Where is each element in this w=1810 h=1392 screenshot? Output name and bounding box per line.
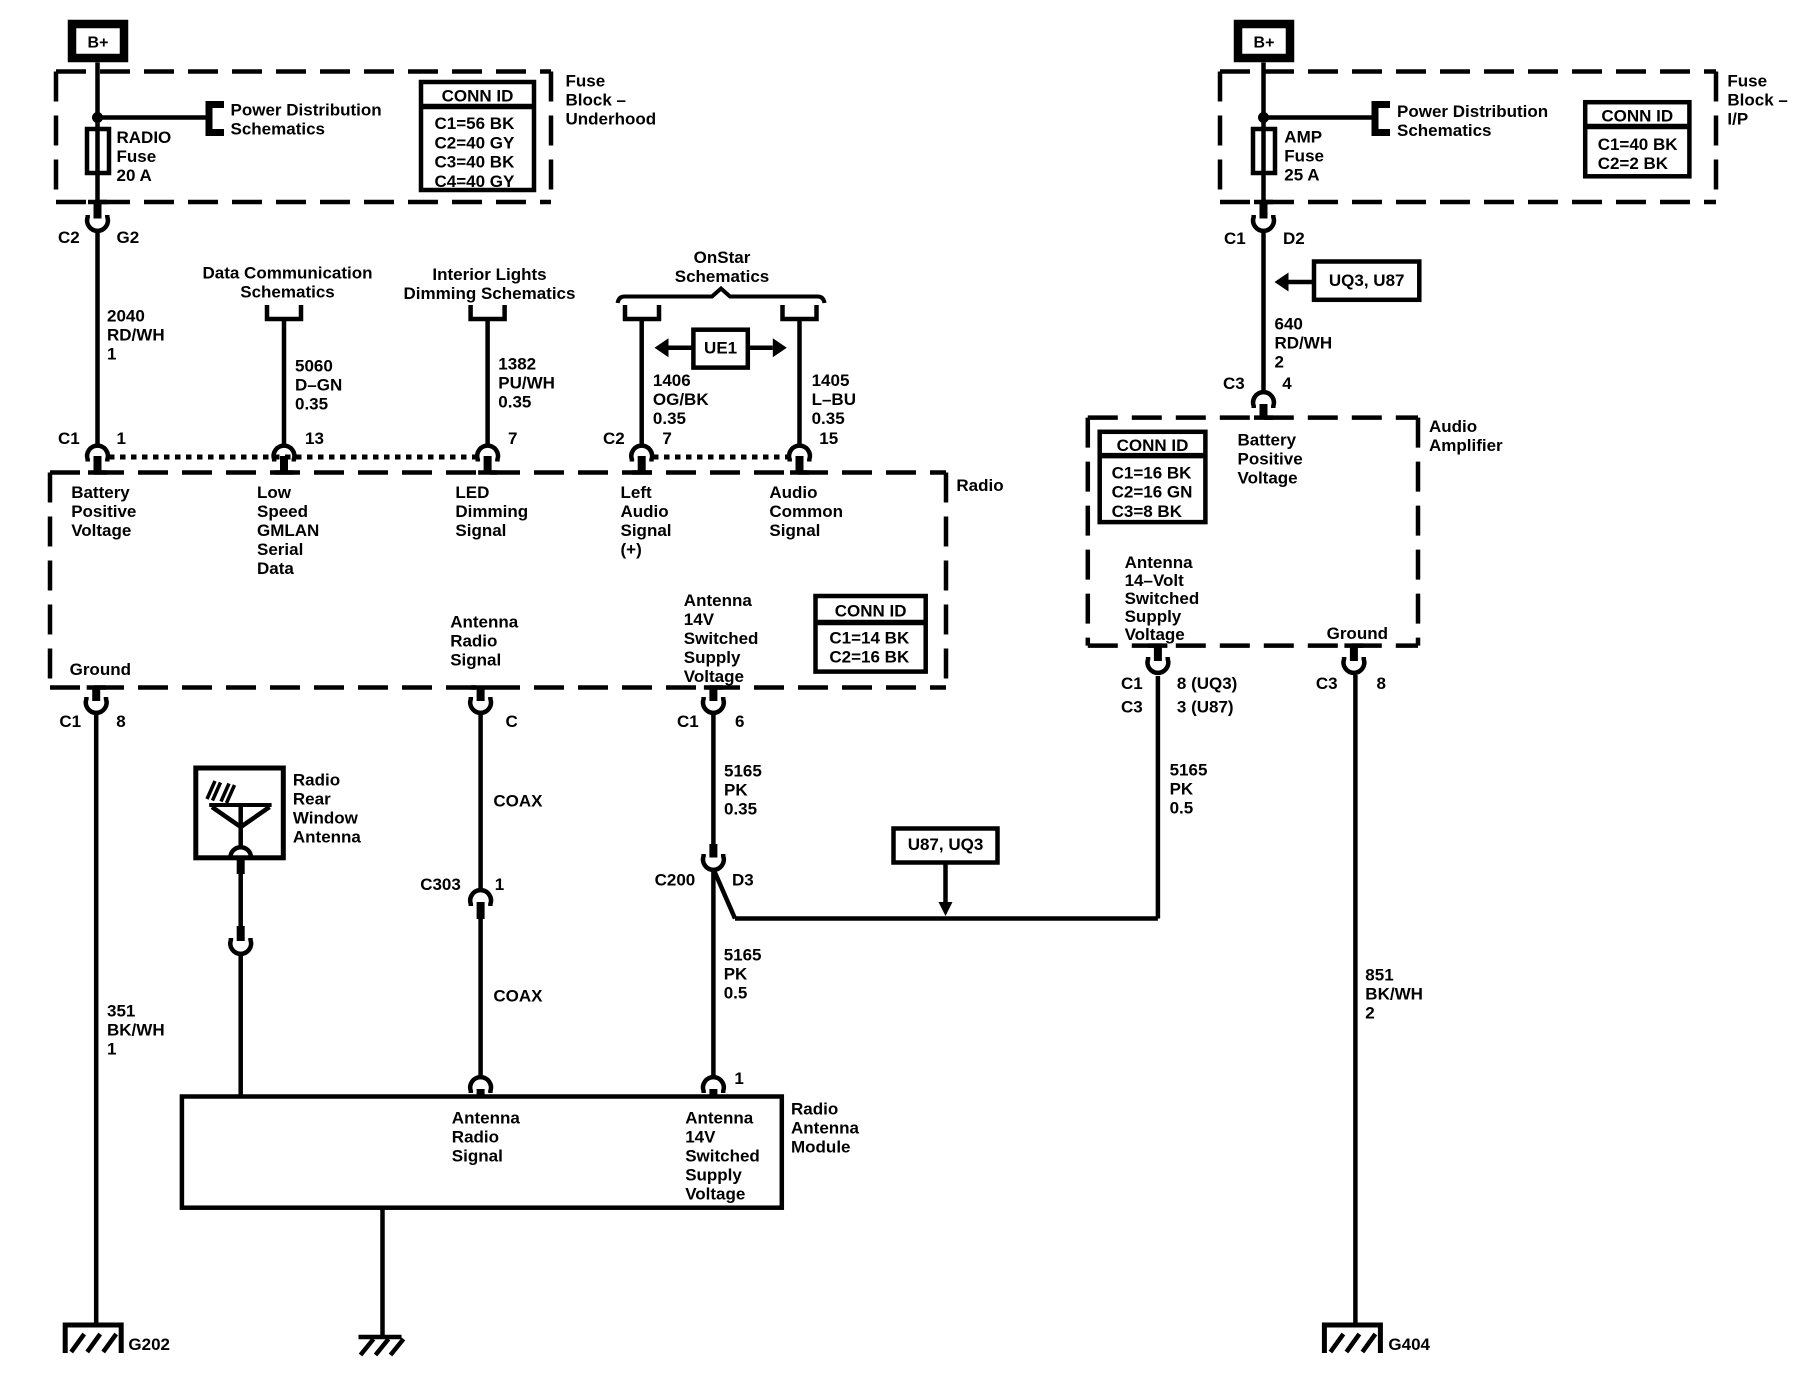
svg-text:5165: 5165	[724, 761, 762, 780]
label Antenna Radio Signal (radio)	[450, 612, 519, 669]
option box U87 UQ3	[894, 829, 998, 863]
wire B+ feed inside fuse block IP	[1261, 74, 1266, 131]
svg-text:Dimming: Dimming	[455, 502, 528, 521]
option box UE1	[693, 330, 747, 368]
svg-text:Voltage: Voltage	[685, 1184, 745, 1203]
svg-text:Amplifier: Amplifier	[1429, 436, 1503, 455]
svg-text:Signal: Signal	[455, 521, 506, 540]
svg-text:C3=8 BK: C3=8 BK	[1112, 502, 1183, 521]
wire antenna to module	[238, 954, 243, 1097]
label Low Speed GMLAN Serial Data	[257, 483, 319, 578]
svg-text:851: 851	[1365, 965, 1393, 984]
label 5060 D-GN 0.35	[295, 356, 342, 413]
svg-text:BK/WH: BK/WH	[1365, 984, 1423, 1003]
svg-text:Antenna: Antenna	[791, 1118, 860, 1137]
radio ground pin cup	[86, 697, 107, 713]
svg-text:C2: C2	[58, 228, 80, 247]
border dash segments at pin crossings	[87, 202, 1364, 688]
svg-text:Interior Lights: Interior Lights	[432, 265, 546, 284]
svg-text:14V: 14V	[685, 1127, 716, 1146]
svg-text:6: 6	[735, 712, 744, 731]
svg-text:I/P: I/P	[1727, 109, 1748, 128]
wire COAX lower	[478, 919, 483, 1076]
svg-text:0.35: 0.35	[724, 799, 757, 818]
label 5165 PK 0.35	[724, 761, 762, 818]
wire branch diagonal to amplifier	[715, 872, 736, 919]
svg-text:C1=40 BK: C1=40 BK	[1598, 135, 1679, 154]
wire COAX upper	[478, 714, 483, 889]
svg-text:5060: 5060	[295, 356, 333, 375]
svg-text:C200: C200	[655, 871, 696, 890]
svg-text:2: 2	[1275, 352, 1284, 371]
svg-text:C303: C303	[420, 875, 461, 894]
wire module ground	[380, 1208, 385, 1339]
UQ3 U87 arrow left	[1275, 273, 1315, 292]
amp ground pin stub	[1350, 646, 1358, 661]
svg-text:Fuse: Fuse	[566, 71, 606, 90]
svg-text:Rear: Rear	[293, 789, 331, 808]
module antenna signal pin dome	[470, 1077, 491, 1093]
label Left Audio Signal (+)	[621, 483, 672, 559]
svg-text:Supply: Supply	[684, 648, 741, 667]
label 640 RD/WH 2	[1275, 314, 1333, 371]
svg-text:Ground: Ground	[1327, 624, 1388, 643]
svg-text:C3: C3	[1223, 374, 1245, 393]
label Antenna 14-Volt Switched Supply Voltage (amp)	[1125, 553, 1200, 644]
svg-text:Fuse: Fuse	[1727, 71, 1767, 90]
label Power Distribution Schematics (left)	[231, 100, 382, 138]
antenna inline connector stub	[237, 926, 245, 941]
label Battery Positive Voltage (amp)	[1238, 430, 1303, 487]
wire to power distribution pointer (right)	[1264, 115, 1373, 120]
radio pin 15 dome	[789, 446, 810, 462]
svg-text:Ground: Ground	[70, 660, 131, 679]
svg-text:Audio: Audio	[1429, 417, 1477, 436]
svg-text:Voltage: Voltage	[71, 521, 131, 540]
svg-text:0.35: 0.35	[295, 394, 328, 413]
svg-text:C2: C2	[603, 429, 625, 448]
svg-text:D–GN: D–GN	[295, 375, 342, 394]
svg-text:20 A: 20 A	[117, 166, 152, 185]
connector C303 dome	[470, 890, 491, 906]
svg-text:C1: C1	[58, 429, 80, 448]
wire B+ feed inside fuse block	[95, 74, 100, 131]
svg-text:0.5: 0.5	[724, 983, 748, 1002]
radio pin 7 dome	[477, 446, 498, 462]
ground G404 symbol	[1324, 1325, 1380, 1353]
interior lights bracket	[471, 305, 505, 319]
label Data Communication Schematics	[202, 263, 372, 301]
svg-text:0.35: 0.35	[812, 409, 845, 428]
svg-text:PK: PK	[724, 780, 748, 799]
junction node (right)	[1258, 112, 1269, 123]
svg-text:Signal: Signal	[769, 521, 820, 540]
wire 2040 RD/WH	[95, 231, 100, 445]
wire through AMP fuse	[1261, 131, 1266, 202]
svg-text:COAX: COAX	[493, 791, 543, 810]
antenna inline connector cup	[230, 938, 251, 954]
CONN ID table radio	[816, 596, 926, 672]
label Audio Common Signal	[769, 483, 843, 540]
wire vertical up to amplifier pin	[1156, 676, 1161, 919]
svg-text:Low: Low	[257, 483, 292, 502]
svg-text:Positive: Positive	[71, 502, 136, 521]
svg-text:2: 2	[1365, 1003, 1374, 1022]
svg-text:0.5: 0.5	[1170, 798, 1194, 817]
svg-text:14V: 14V	[684, 610, 715, 629]
connector C1 D2 stub	[1260, 202, 1268, 219]
svg-text:(+): (+)	[621, 540, 642, 559]
svg-text:Serial: Serial	[257, 540, 303, 559]
svg-text:Radio: Radio	[450, 631, 497, 650]
amp ground pin cup	[1344, 657, 1365, 673]
svg-text:1: 1	[117, 429, 126, 448]
svg-text:8: 8	[1377, 674, 1386, 693]
svg-text:1382: 1382	[498, 354, 536, 373]
wire 640 RD/WH	[1261, 231, 1266, 391]
svg-text:CONN ID: CONN ID	[835, 602, 907, 621]
svg-text:B+: B+	[88, 35, 109, 52]
label OnStar Schematics	[675, 248, 770, 286]
wire B+ to fuse block IP	[1261, 63, 1266, 75]
svg-text:Supply: Supply	[1125, 607, 1182, 626]
radio antenna signal pin cup	[470, 697, 491, 713]
svg-text:640: 640	[1275, 314, 1303, 333]
svg-text:C1=56 BK: C1=56 BK	[435, 114, 516, 133]
connector C2 dotted row	[653, 455, 788, 460]
svg-text:C1: C1	[677, 712, 699, 731]
svg-text:C3=40 BK: C3=40 BK	[435, 153, 516, 172]
radio pin 1 stub	[94, 456, 102, 472]
CONN ID table fuse block underhood	[421, 82, 534, 191]
radio antenna 14V pin stub	[709, 688, 717, 702]
U87 UQ3 arrow down	[939, 863, 953, 917]
connector C2 G2 stub	[94, 202, 102, 219]
radio pin 7 stub	[484, 456, 492, 472]
antenna symbol	[209, 805, 271, 858]
label Radio Rear Window Antenna	[293, 770, 362, 846]
svg-text:Voltage: Voltage	[1238, 468, 1298, 487]
svg-text:G404: G404	[1388, 1335, 1430, 1354]
svg-text:LED: LED	[455, 483, 489, 502]
label 1406 OG/BK 0.35	[653, 371, 709, 428]
ground symbol (module)	[359, 1337, 404, 1355]
radio pin 1 dome	[87, 446, 108, 462]
label 1382 PU/WH 0.35	[498, 354, 555, 411]
svg-text:Fuse: Fuse	[117, 147, 157, 166]
svg-text:CONN ID: CONN ID	[1117, 436, 1189, 455]
svg-text:PK: PK	[724, 964, 748, 983]
svg-text:Schematics: Schematics	[1397, 121, 1492, 140]
svg-text:Speed: Speed	[257, 502, 308, 521]
radio antenna module box	[182, 1097, 782, 1208]
junction node	[92, 112, 103, 123]
svg-text:Antenna: Antenna	[450, 612, 519, 631]
svg-text:25 A: 25 A	[1284, 165, 1319, 184]
svg-text:5165: 5165	[1170, 760, 1208, 779]
svg-text:Positive: Positive	[1238, 449, 1303, 468]
svg-text:C2=16 BK: C2=16 BK	[829, 648, 910, 667]
radio pin 13 dome	[274, 446, 295, 462]
radio antenna signal pin stub	[477, 688, 485, 702]
svg-text:4: 4	[1282, 374, 1292, 393]
svg-text:Radio: Radio	[452, 1127, 499, 1146]
svg-text:Signal: Signal	[450, 650, 501, 669]
svg-text:Radio: Radio	[293, 770, 340, 789]
module antenna 14V pin dome	[703, 1077, 724, 1093]
radio dashed box	[50, 473, 946, 688]
svg-text:CONN ID: CONN ID	[442, 87, 514, 106]
svg-text:Audio: Audio	[621, 502, 669, 521]
svg-text:Antenna: Antenna	[685, 1108, 754, 1127]
svg-text:COAX: COAX	[493, 986, 543, 1005]
fuse RADIO 20A symbol	[87, 129, 109, 173]
connector C1 dotted row	[109, 455, 476, 460]
svg-text:AMP: AMP	[1284, 127, 1322, 146]
svg-text:Data: Data	[257, 559, 294, 578]
svg-text:RADIO: RADIO	[117, 128, 172, 147]
CONN ID table fuse block IP	[1585, 102, 1689, 176]
data communication bracket	[267, 305, 301, 319]
svg-text:C1=14 BK: C1=14 BK	[829, 628, 910, 647]
label Power Distribution Schematics (right)	[1397, 102, 1548, 140]
svg-text:RD/WH: RD/WH	[107, 325, 165, 344]
onstar right bracket	[783, 305, 817, 319]
svg-text:Underhood: Underhood	[566, 109, 657, 128]
svg-text:7: 7	[508, 429, 517, 448]
svg-text:0.35: 0.35	[653, 409, 686, 428]
svg-text:Antenna: Antenna	[293, 827, 362, 846]
wire B+ to fuse block underhood	[95, 63, 100, 75]
svg-text:Battery: Battery	[1238, 430, 1297, 449]
svg-text:D2: D2	[1283, 229, 1305, 248]
wire 1382 PU/WH	[485, 319, 490, 445]
svg-text:15: 15	[819, 429, 838, 448]
svg-text:1: 1	[107, 1039, 116, 1058]
label 5165 PK 0.5 (left)	[724, 945, 762, 1002]
antenna output stub	[237, 858, 245, 874]
connector C303 stub	[477, 902, 485, 919]
wire to power distribution pointer	[98, 115, 207, 120]
fuse block IP dashed box	[1220, 72, 1716, 203]
svg-text:1: 1	[495, 875, 504, 894]
svg-text:C3: C3	[1121, 698, 1143, 717]
svg-text:C4=40 GY: C4=40 GY	[435, 172, 516, 191]
radio antenna 14V pin cup	[703, 697, 724, 713]
label Battery Positive Voltage (radio)	[71, 483, 136, 540]
label AMP Fuse 25 A	[1284, 127, 1324, 184]
svg-text:C1: C1	[59, 712, 81, 731]
svg-text:C2=40 GY: C2=40 GY	[435, 133, 516, 152]
svg-text:C: C	[506, 712, 518, 731]
svg-text:Window: Window	[293, 808, 359, 827]
svg-text:OG/BK: OG/BK	[653, 390, 709, 409]
wire 5165 PK 0.35	[711, 714, 716, 844]
UE1 left arrow	[655, 338, 694, 357]
svg-text:Block –: Block –	[1727, 90, 1787, 109]
amp antenna supply pin cup	[1148, 657, 1169, 673]
B+ power symbol (right)	[1238, 24, 1290, 58]
label RADIO Fuse 20 A	[117, 128, 172, 185]
svg-text:C2=16 GN: C2=16 GN	[1112, 483, 1193, 502]
label 2040 RD/WH 1	[107, 306, 165, 363]
svg-text:B+: B+	[1254, 35, 1275, 52]
wire C200 to module	[711, 871, 716, 1076]
svg-text:C1: C1	[1224, 229, 1246, 248]
audio amplifier dashed box	[1088, 418, 1418, 646]
svg-text:Switched: Switched	[685, 1146, 760, 1165]
svg-text:U87, UQ3: U87, UQ3	[908, 835, 984, 854]
svg-text:G202: G202	[128, 1335, 170, 1354]
label Fuse Block - I/P	[1727, 71, 1787, 128]
radio rear window antenna box	[196, 768, 283, 858]
wire antenna lead	[238, 874, 243, 926]
svg-text:Block –: Block –	[566, 90, 626, 109]
svg-text:2040: 2040	[107, 306, 145, 325]
radio pin C2-7 stub	[638, 456, 646, 472]
label Interior Lights Dimming Schematics	[404, 265, 576, 303]
svg-text:D3: D3	[732, 871, 754, 890]
power distribution bracket symbol	[209, 105, 224, 133]
svg-text:Power Distribution: Power Distribution	[231, 100, 382, 119]
svg-text:Switched: Switched	[1125, 589, 1200, 608]
svg-text:Signal: Signal	[621, 521, 672, 540]
svg-text:1: 1	[107, 344, 116, 363]
power distribution bracket symbol (right)	[1375, 105, 1390, 133]
label Antenna Radio Signal (module)	[452, 1108, 521, 1165]
svg-text:Switched: Switched	[684, 629, 759, 648]
label 5165 PK 0.5 (right)	[1170, 760, 1208, 817]
svg-text:C3: C3	[1316, 674, 1338, 693]
label Fuse Block - Underhood	[566, 71, 657, 128]
svg-text:UE1: UE1	[704, 338, 737, 357]
fuse block underhood dashed box	[56, 72, 551, 203]
wire 851 BK/WH	[1353, 675, 1358, 1325]
svg-text:Antenna: Antenna	[684, 591, 753, 610]
wire 1406 OG/BK	[639, 319, 644, 445]
svg-text:1406: 1406	[653, 371, 691, 390]
onstar left bracket	[625, 305, 659, 319]
wire 1405 L-BU	[797, 319, 802, 445]
svg-text:14–Volt: 14–Volt	[1125, 571, 1185, 590]
svg-text:Voltage: Voltage	[1125, 625, 1185, 644]
svg-text:8: 8	[116, 712, 125, 731]
svg-text:Signal: Signal	[452, 1146, 503, 1165]
module antenna 14V pin stub	[709, 1089, 717, 1097]
svg-text:GMLAN: GMLAN	[257, 521, 319, 540]
svg-text:L–BU: L–BU	[812, 390, 856, 409]
radio pin 13 stub	[280, 456, 288, 472]
svg-text:Power Distribution: Power Distribution	[1397, 102, 1548, 121]
svg-text:C2=2 BK: C2=2 BK	[1598, 154, 1669, 173]
amp antenna supply pin stub	[1154, 646, 1162, 661]
svg-text:Battery: Battery	[71, 483, 130, 502]
svg-text:13: 13	[305, 429, 324, 448]
label 851 BK/WH 2	[1365, 965, 1423, 1022]
svg-text:Left: Left	[621, 483, 653, 502]
svg-text:Schematics: Schematics	[231, 119, 326, 138]
ground G202 symbol	[65, 1325, 121, 1353]
svg-text:Fuse: Fuse	[1284, 146, 1324, 165]
svg-text:351: 351	[107, 1001, 135, 1020]
label LED Dimming Signal	[455, 483, 528, 540]
svg-text:C1: C1	[1121, 674, 1143, 693]
svg-text:0.35: 0.35	[498, 392, 531, 411]
svg-text:Schematics: Schematics	[675, 267, 770, 286]
radio pin 15 stub	[796, 456, 804, 472]
svg-text:Dimming Schematics: Dimming Schematics	[404, 284, 576, 303]
svg-text:BK/WH: BK/WH	[107, 1020, 165, 1039]
wire through fuse	[95, 131, 100, 202]
amplifier battery pin dome	[1253, 392, 1274, 408]
svg-text:Voltage: Voltage	[684, 667, 744, 686]
connector C2 G2 cup	[87, 215, 108, 231]
svg-text:7: 7	[662, 429, 671, 448]
connector C200 D3 cup	[703, 854, 724, 870]
CONN ID table amplifier	[1100, 432, 1206, 522]
svg-text:Supply: Supply	[685, 1165, 742, 1184]
label Antenna 14V Switched Supply Voltage (module)	[685, 1108, 760, 1203]
svg-text:Antenna: Antenna	[452, 1108, 521, 1127]
svg-text:1405: 1405	[812, 371, 850, 390]
svg-text:Schematics: Schematics	[240, 282, 335, 301]
svg-text:PK: PK	[1170, 779, 1194, 798]
label Radio Antenna Module	[791, 1099, 860, 1156]
svg-text:Data Communication: Data Communication	[202, 263, 372, 282]
B+ power symbol (left)	[72, 24, 124, 58]
svg-text:RD/WH: RD/WH	[1275, 333, 1333, 352]
fuse AMP 25A symbol	[1253, 129, 1275, 173]
label Audio Amplifier	[1429, 417, 1503, 455]
svg-text:Radio: Radio	[956, 476, 1003, 495]
svg-text:UQ3, U87: UQ3, U87	[1329, 271, 1405, 290]
connector C1 D2 cup	[1253, 215, 1274, 231]
svg-text:CONN ID: CONN ID	[1601, 107, 1673, 126]
svg-text:PU/WH: PU/WH	[498, 373, 555, 392]
connector C200 D3 stub	[709, 844, 717, 858]
amplifier battery pin stub	[1260, 404, 1268, 418]
onstar brace	[618, 289, 825, 304]
svg-text:Module: Module	[791, 1137, 851, 1156]
svg-text:G2: G2	[117, 228, 140, 247]
UE1 right arrow	[748, 338, 787, 357]
svg-text:OnStar: OnStar	[694, 248, 751, 267]
wire 5060 D-GN	[282, 319, 287, 445]
option box UQ3 U87	[1314, 262, 1419, 300]
module antenna signal pin stub	[477, 1089, 485, 1097]
svg-text:3 (U87): 3 (U87)	[1177, 698, 1234, 717]
label 351 BK/WH 1	[107, 1001, 165, 1058]
radio ground pin stub	[92, 688, 100, 702]
wire 351 BK/WH	[94, 714, 99, 1325]
antenna lightning marks	[207, 781, 235, 803]
svg-text:Common: Common	[769, 502, 843, 521]
radio pin C2-7 dome	[631, 446, 652, 462]
svg-text:5165: 5165	[724, 945, 762, 964]
svg-text:8 (UQ3): 8 (UQ3)	[1177, 674, 1237, 693]
svg-text:Antenna: Antenna	[1125, 553, 1194, 572]
svg-text:1: 1	[734, 1069, 743, 1088]
label 1405 L-BU 0.35	[812, 371, 856, 428]
svg-text:Radio: Radio	[791, 1099, 838, 1118]
label Antenna 14V Switched Supply Voltage (radio)	[684, 591, 759, 686]
svg-text:Audio: Audio	[769, 483, 817, 502]
svg-text:C1=16 BK: C1=16 BK	[1112, 463, 1193, 482]
wire horizontal run to amplifier	[735, 916, 1158, 921]
